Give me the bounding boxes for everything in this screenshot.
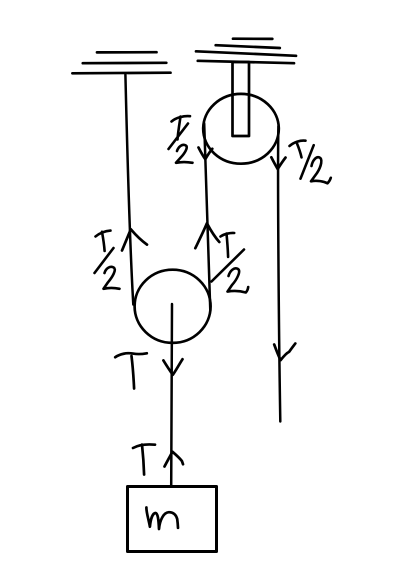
wire: middle rope from lower pulley up to upper pulley bbox=[204, 124, 210, 312]
wire: center rope from lower pulley to mass bbox=[170, 304, 173, 487]
label T/2 (middle rope, lower right) bbox=[212, 233, 249, 293]
label T/2 (left rope) bbox=[95, 231, 120, 289]
wire: right rope from upper pulley down (free end) bbox=[278, 127, 280, 422]
label T (upper, at pulley load) bbox=[115, 353, 147, 388]
arrow: up arrowhead on middle rope near lower pulley bbox=[195, 223, 219, 248]
arrow: down arrowhead on right rope near upper pulley bbox=[271, 157, 285, 169]
arrow: down arrowhead on right rope lower end bbox=[274, 344, 295, 361]
label m (mass) bbox=[146, 508, 178, 530]
label T/2 (right rope) bbox=[290, 141, 331, 184]
label T/2 (middle rope, upper, stacked) bbox=[169, 116, 193, 163]
bracket hanging upper pulley bbox=[233, 62, 250, 136]
pulley P1 (upper, fixed) bbox=[203, 94, 279, 164]
ceiling left (hatched support) bbox=[72, 52, 170, 73]
wire: left rope from left ceiling to lower pulley bbox=[125, 75, 133, 305]
arrow: down arrowhead on middle rope near upper pulley bbox=[199, 148, 213, 160]
ceiling right (hatched support) bbox=[196, 39, 296, 64]
arrow: up arrowhead on left rope bbox=[122, 229, 147, 250]
pulley P2 (lower, movable) bbox=[135, 270, 211, 343]
label T (lower, above mass) bbox=[133, 444, 155, 474]
arrow: up arrowhead on center rope near mass bbox=[165, 452, 184, 467]
arrow: down arrowhead on center rope (T) bbox=[163, 359, 182, 375]
mass box bbox=[128, 487, 217, 552]
